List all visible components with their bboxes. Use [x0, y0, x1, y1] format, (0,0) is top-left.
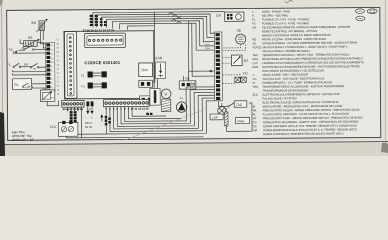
svg-text:PA: PA — [14, 83, 19, 87]
wire RAG bottom — [225, 126, 227, 131]
svg-text:VZ/VZ1: VZ/VZ1 — [252, 45, 262, 49]
svg-text:PF: PF — [24, 63, 28, 67]
svg-text:ELECTROVALVULA DE CARGA INSTAL: ELECTROVALVULA DE CARGA INSTALACION / SI… — [263, 100, 339, 105]
terminal strip X1 black pins — [46, 42, 55, 93]
svg-text:ELETTRODO ACCENSIONE/RILEVAZIO: ELETTRODO ACCENSIONE/RILEVAZIONE - IGNIT… — [262, 64, 360, 69]
J5 pin numbers — [105, 107, 149, 111]
svg-text:POMPA IMPIANTO - C.H. PUMP - B: POMPA IMPIANTO - C.H. PUMP - BOMBA INSTA… — [262, 80, 332, 85]
wire L1 to CR — [93, 12, 225, 28]
wire B4 — [117, 92, 215, 126]
svg-text:1 2: 1 2 — [87, 107, 91, 111]
svg-text:EAR: EAR — [155, 56, 163, 60]
fuse F3 — [81, 82, 107, 88]
connector pump 2-pin — [140, 96, 154, 105]
wire to gas valve down-left — [188, 21, 214, 72]
svg-text:MODULATORE - MODULATING COIL -: MODULATORE - MODULATING COIL - MODULADOR… — [263, 104, 343, 109]
svg-text:ELETTROVALVOLA RIEMPIMENTO IMP: ELETTROVALVOLA RIEMPIMENTO IMPIANTO / SE… — [263, 92, 340, 97]
svg-text:CODICE 6301401: CODICE 6301401 — [84, 60, 120, 65]
wire arrowhead — [209, 70, 212, 73]
zone micro M2 — [231, 55, 248, 66]
wire M2 dashed bottom — [222, 62, 231, 64]
svg-text:TRA: TRA — [253, 85, 259, 89]
connector J2 (top 8-pin) — [85, 33, 126, 48]
svg-text:14: 14 — [146, 107, 150, 111]
logo ellipse 2 — [367, 9, 377, 14]
svg-text:TAG: TAG — [252, 53, 257, 57]
wire LSP stub — [221, 103, 223, 106]
wire PF-right — [39, 66, 47, 68]
svg-text:VALVOLA GAS - GAS VALVE - ELEC: VALVOLA GAS - GAS VALVE - ELECTROVALVULA — [262, 76, 324, 80]
wire row-a — [12, 70, 46, 72]
fuse F1 — [81, 71, 107, 77]
wire SM-b — [42, 30, 44, 40]
svg-text:50 Hz: 50 Hz — [85, 125, 93, 129]
wire J4 pin45 drop — [80, 107, 82, 137]
scan artifact left bar — [0, 112, 5, 156]
svg-text:27 28 29 30 31 32 33 34: 27 28 29 30 31 32 33 34 — [83, 28, 115, 32]
wire bottom extra — [66, 135, 203, 138]
svg-text:TELECOMANDO REMOTO / MODULO RA: TELECOMANDO REMOTO / MODULO RADIO FREQUE… — [262, 25, 350, 30]
scan artifact left edge line — [2, 0, 3, 112]
wire hops — [168, 12, 181, 23]
svg-text:SE: SE — [252, 41, 256, 45]
terminal strip X2 vertical — [214, 32, 222, 101]
svg-text:MANDO A DISTANCIA / MODULO RAD: MANDO A DISTANCIA / MODULO RADIO FRECUEN… — [262, 33, 331, 38]
svg-text:SM: SM — [31, 21, 36, 25]
svg-text:LINEA - PHASE - FASE: LINEA - PHASE - FASE — [262, 9, 291, 13]
paper area below drawing frame (darker strip) — [0, 142, 388, 165]
wire EAR/TRA drop — [152, 12, 155, 82]
flow switch FL — [7, 63, 21, 68]
svg-text:EAR: EAR — [253, 65, 259, 69]
wire tag cluster 3 — [146, 113, 152, 115]
svg-text:TRANSFORMADOR DE ENCENDIDO: TRANSFORMADOR DE ENCENDIDO — [262, 88, 308, 92]
wire TAG — [218, 101, 227, 107]
modulator MOD — [40, 88, 55, 101]
connector J1 (left 14-pin vertical) — [64, 32, 77, 99]
logo ellipse 1 — [355, 9, 364, 13]
svg-text:TS: TS — [253, 120, 257, 124]
svg-text:ECA: ECA — [50, 125, 56, 129]
heating sensor SM — [31, 19, 48, 33]
scan artifact right blob — [381, 143, 388, 153]
wire B1 — [106, 101, 215, 134]
connector J5 (12-pin) — [104, 99, 149, 106]
ferrule tag grid — [70, 111, 77, 122]
svg-text:REMOTE CONTROL / RF BRIDGE - O: REMOTE CONTROL / RF BRIDGE - OPTION — [262, 29, 317, 33]
svg-text:F1: F1 — [252, 18, 256, 22]
lower margin line — [0, 142, 388, 145]
label L N — [86, 117, 93, 119]
squiggle mark top — [285, 0, 293, 2]
svg-text:F1: F1 — [81, 74, 85, 78]
title block — [12, 130, 34, 142]
wire SE dashed — [222, 44, 241, 48]
svg-text:V: V — [165, 92, 168, 97]
svg-text:TAG: TAG — [236, 103, 243, 107]
wire to gas valve 2 — [192, 23, 215, 76]
wire B7 to pump — [128, 106, 181, 119]
svg-text:FUSIBILE (T1,6 A?) - FUSE - FU: FUSIBILE (T1,6 A?) - FUSE - FUSIBLE — [262, 21, 309, 25]
svg-text:F3: F3 — [81, 85, 85, 89]
svg-text:VALVULA ZONA 2 / BOMBA DE ZONA: VALVULA ZONA 2 / BOMBA DE ZONA 1 — [262, 49, 311, 53]
wire ECA out low — [78, 133, 106, 135]
svg-text:CR: CR — [252, 26, 256, 30]
svg-text:TERMOSTATO ANTIGELO - FROST ST: TERMOSTATO ANTIGELO - FROST STAT - TERMO… — [262, 52, 349, 57]
wire row-ts2 — [13, 51, 46, 53]
svg-text:TERMOSTATO SICUREZZA - SAFETY: TERMOSTATO SICUREZZA - SAFETY STAT - TER… — [263, 120, 359, 125]
mains wires L N arrows — [86, 106, 93, 114]
svg-text:RAG: RAG — [252, 57, 258, 61]
svg-text:CR: CR — [216, 14, 221, 18]
scan artifact top-left mark — [0, 0, 3, 6]
wire ECA drops — [68, 107, 78, 111]
wire row-b — [12, 73, 46, 75]
pressure switch PF — [24, 63, 39, 69]
svg-text:FUSIBILE (T.6,3 A?) - FUSE - F: FUSIBILE (T.6,3 A?) - FUSE - FUSIBLE — [262, 17, 310, 21]
svg-text:OPEN Z/P + BF: OPEN Z/P + BF — [12, 138, 34, 142]
svg-text:VG: VG — [185, 77, 190, 81]
wire B3 to TAG — [113, 95, 215, 129]
wire SS-b — [20, 39, 23, 43]
svg-text:RGA: RGA — [205, 47, 211, 50]
zone valve V21 — [222, 71, 248, 83]
safety stat TS — [8, 45, 34, 53]
wire TS — [34, 48, 46, 50]
fan V — [161, 89, 171, 112]
svg-text:VENTILATORE - FAN - VENTILADOR: VENTILATORE - FAN - VENTILADOR — [262, 73, 308, 77]
svg-text:SS: SS — [253, 124, 257, 128]
pump PI — [176, 96, 187, 112]
wire dashed aux — [222, 44, 246, 50]
wire L5 — [113, 21, 215, 47]
wire B6 — [124, 87, 214, 122]
svg-text:VG: VG — [253, 77, 257, 81]
wire tag cluster 1 — [105, 116, 111, 126]
svg-text:PRESSOSTATO ACQUA - WATER PRES: PRESSOSTATO ACQUA - WATER PRESSURE SWITC… — [263, 108, 360, 113]
anti-freeze resistance RAG — [225, 112, 250, 126]
wire L3 — [102, 16, 215, 38]
svg-text:RESISTENZA ANTIGELO-ANTI-FREEZ: RESISTENZA ANTIGELO-ANTI-FREEZE RESISTAN… — [262, 56, 363, 61]
svg-text:LAMPADA SPIA FUNZIONAMENTO-OPE: LAMPADA SPIA FUNZIONAMENTO-OPERATION LED… — [262, 60, 364, 65]
svg-text:FL: FL — [7, 63, 11, 67]
svg-text:NEUTRO - NEUTRAL: NEUTRO - NEUTRAL — [262, 13, 289, 17]
wire SM-a — [40, 30, 46, 43]
PCB board outline CODICE 6301401 — [64, 31, 154, 99]
wire PA — [32, 83, 47, 85]
J4 pin numbers — [63, 107, 84, 111]
wire MOD drop — [47, 101, 58, 106]
svg-text:subito.it: subito.it — [298, 146, 322, 153]
ignition electrode EAR — [155, 56, 165, 78]
wire L2 — [97, 14, 215, 34]
svg-text:FLUSSOSTATO SANITARIO - FLOW S: FLUSSOSTATO SANITARIO - FLOW SWITCH (D.H… — [263, 112, 350, 117]
wire L4 — [107, 18, 215, 42]
wire RAG top — [225, 108, 227, 112]
wire L6 — [120, 23, 215, 51]
svg-text:ELA: ELA — [253, 93, 258, 97]
page background — [0, 0, 388, 156]
connector CN-top black pins — [90, 15, 107, 27]
svg-text:PF: PF — [253, 116, 257, 120]
earth arrow — [100, 114, 103, 121]
wire TS-left — [18, 49, 23, 51]
wire EAR drop — [156, 78, 158, 88]
gas valve VG — [179, 77, 196, 90]
scan crease diagonal — [124, 110, 204, 141]
svg-text:SONDA SANITARIO (NTC)-D.H.W. T: SONDA SANITARIO (NTC)-D.H.W. TEMPER. SEN… — [263, 123, 357, 128]
water pressure switch PA — [12, 79, 31, 90]
connector TRA 2-pin — [139, 80, 153, 87]
wire FL-PF — [21, 66, 30, 68]
electrode holder — [150, 88, 160, 105]
svg-text:LSP: LSP — [252, 61, 257, 65]
wire M2 dashed top — [222, 56, 231, 58]
svg-text:ELECTRODO DE ENCENDIDO Y DE DE: ELECTRODO DE ENCENDIDO Y DE DETECCION — [262, 68, 324, 72]
svg-text:SONDA CONTROLLO TEMPERATURA DE: SONDA CONTROLLO TEMPERATURA DE AGUES MON… — [263, 131, 344, 136]
svg-text:PI: PI — [180, 96, 183, 100]
svg-text:SONDA ESTERNA - OUTSIDE TEMPER: SONDA ESTERNA - OUTSIDE TEMPERATURE SENS… — [262, 41, 357, 46]
svg-text:V: V — [253, 73, 255, 77]
svg-text:FL: FL — [253, 112, 257, 116]
wire L7 to TRA — [128, 26, 155, 30]
frost stat TAG — [228, 101, 247, 108]
wire VG stubs — [183, 71, 188, 81]
wire B5 — [121, 90, 215, 124]
pin id column — [56, 39, 60, 96]
svg-text:PA: PA — [253, 108, 257, 112]
svg-text:M2: M2 — [244, 59, 249, 63]
svg-text:RAG: RAG — [238, 119, 246, 123]
svg-text:FILLING VALVE / IF FITTED: FILLING VALVE / IF FITTED — [263, 96, 297, 100]
svg-text:N: N — [252, 14, 254, 18]
outdoor sensor SE — [236, 29, 246, 45]
svg-text:VGA: VGA — [205, 43, 210, 46]
transformer TRA — [139, 63, 153, 77]
wire TAG loop — [226, 103, 252, 131]
svg-text:TRA: TRA — [141, 68, 149, 72]
wire SS-a — [37, 42, 46, 48]
svg-text:M: M — [51, 96, 53, 100]
drawing border frame — [7, 7, 381, 140]
legend text block — [252, 9, 364, 136]
svg-text:SONDA MANDATA RISCALD.(NTC)/OU: SONDA MANDATA RISCALD.(NTC)/OUTLET C.H. … — [263, 127, 357, 132]
wire B8 to fan — [132, 106, 166, 116]
svg-text:SE: SE — [237, 29, 242, 33]
svg-text:PRESSOSTATO FUMI - SMOKE PRESS: PRESSOSTATO FUMI - SMOKE PRESSURE SWITCH… — [263, 116, 363, 121]
scan artifact right edge — [384, 0, 386, 148]
svg-text:V21: V21 — [243, 71, 249, 75]
svg-text:MICRO DI ZONA - ZONE MICRO - M: MICRO DI ZONA - ZONE MICRO - MICRO DE ZO… — [262, 37, 326, 42]
remote control CR — [216, 12, 244, 21]
svg-text:VALVOLA ZONA 2 / POMPA ZONA 1: VALVOLA ZONA 2 / POMPA ZONA 1 - ZONE VAL… — [262, 45, 348, 50]
label 230V 50Hz — [85, 121, 93, 129]
wire PA-2 — [33, 86, 47, 88]
filter ECA — [50, 121, 78, 137]
dhw sensor SS — [21, 36, 39, 49]
svg-text:LSP: LSP — [212, 116, 219, 120]
svg-text:MZ: MZ — [252, 37, 256, 41]
wire tags to ECA — [71, 121, 75, 123]
svg-text:PI: PI — [253, 81, 256, 85]
wire B2 — [110, 98, 215, 131]
svg-text:TRASFORMATORE DI ACCENSIONE -: TRASFORMATORE DI ACCENSIONE - IGNITION T… — [262, 84, 344, 89]
svg-text:F3: F3 — [252, 22, 256, 26]
mains pins L N — [86, 101, 93, 106]
logo ellipse 3 — [356, 16, 365, 20]
operation lamp LSP — [210, 107, 226, 120]
connector J4 (6-pin) — [62, 100, 84, 107]
